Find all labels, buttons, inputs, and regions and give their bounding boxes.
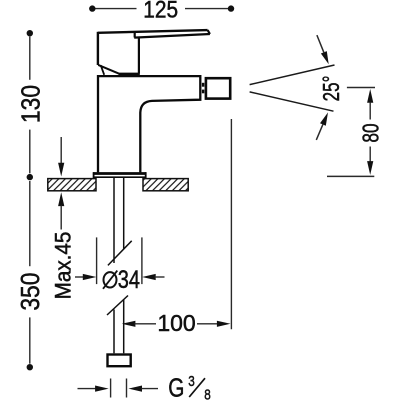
spray cone bottom line [250,92,334,111]
base flange top edge [93,172,146,175]
supply pipe right line upper [123,178,125,249]
dim 100 left arrow shaft [135,323,157,325]
spray cone top line [250,65,335,85]
dim Ø34 right arrow shaft [155,276,165,278]
base flange left cap [93,172,95,178]
spout tip extension line [230,119,232,329]
G3/8 left extension line [110,379,112,398]
25 deg bottom arrow shaft [316,124,323,139]
svg-text:100: 100 [157,310,195,336]
handle stem right edge [138,37,140,73]
dimension 125 line left segment [95,8,137,10]
dim 80 bottom tick [327,175,374,177]
dimension 130 top dot [27,30,33,36]
pipe end nut [108,355,131,367]
supply pipe left line upper [113,178,115,263]
dimension 350 bottom dot [27,364,33,370]
Max.45 down arrow shaft [60,137,62,164]
aerator neck lower tick [202,90,204,94]
supply pipe right line lower [123,299,125,353]
handle inner small diagonal [101,65,105,75]
lever left end cap [134,32,136,38]
svg-text:350: 350 [17,273,46,311]
dimension 350 line upper segment [29,181,31,266]
dimension 130/350 shared dot [27,174,33,180]
svg-text:Max.45: Max.45 [51,232,76,300]
dimension 125 right dot [228,5,234,11]
svg-text:34: 34 [118,266,140,294]
dimension 350 line lower segment [29,317,31,363]
dim 100 right arrowhead [217,321,231,327]
G3/8 left arrow shaft [78,388,97,390]
Max.45 up arrow shaft [60,206,62,230]
base flange right cap [145,172,147,178]
dim 80 down arrowhead [367,161,373,175]
dim Ø34 left arrowhead [83,274,97,280]
dimension 125 line right segment [185,8,229,10]
dim 80 lower shaft [369,147,371,162]
dimension symbol slash of Ø34 [103,271,117,289]
handle front (left) edge [97,32,99,65]
dim Ø34 left extension line [96,237,98,284]
G3/8 right arrowhead [128,386,142,392]
thread label fraction slash [189,378,205,397]
dim 80 up arrowhead [367,89,373,103]
dim 100 right arrow shaft [197,323,217,325]
faucet handle lever top edge [98,30,208,33]
25 deg top arrowhead [321,51,329,64]
base flange bottom edge [93,176,146,178]
svg-text:125: 125 [143,0,178,23]
dim Ø34 right arrowhead [142,274,156,280]
deck right hatched block [143,179,188,191]
svg-text:130: 130 [17,85,46,123]
lever right bevel [208,30,210,34]
pipe break slash 1 [108,241,132,266]
dimension 125 left dot [89,5,95,11]
deck left hatched block [48,179,96,191]
G3/8 right arrow shaft [142,388,159,390]
dim 80 top tick [347,87,375,89]
handle bottom bevel diagonal [98,65,119,74]
Max.45 down arrowhead [58,163,64,177]
svg-text:8: 8 [204,386,211,400]
dimension 130 line lower segment [29,130,31,174]
dim Ø34 left arrow shaft [75,276,84,278]
dim 100 left arrowhead [122,321,136,327]
dim Ø34 right extension line [141,237,143,284]
dim 80 upper shaft [369,102,371,119]
dimension symbol O of Ø34 [104,272,117,287]
svg-text:G: G [168,373,184,400]
faucet body outline [98,76,200,172]
aerator body [206,78,230,98]
supply pipe left line lower [113,310,115,354]
dimension 130 line upper segment [29,37,31,80]
lever underside [134,34,210,38]
25 deg bottom arrowhead [320,112,328,125]
svg-text:80: 80 [359,123,384,142]
svg-text:3: 3 [188,373,195,390]
Max.45 up arrowhead [58,192,64,206]
G3/8 right extension line [126,379,128,398]
pipe break slash 2 [107,296,128,316]
25 deg top arrow shaft [317,35,324,52]
aerator neck upper tick [202,83,204,87]
G3/8 left arrowhead [95,386,109,392]
svg-text:25°: 25° [320,76,345,102]
handle bottom edge [119,73,140,75]
